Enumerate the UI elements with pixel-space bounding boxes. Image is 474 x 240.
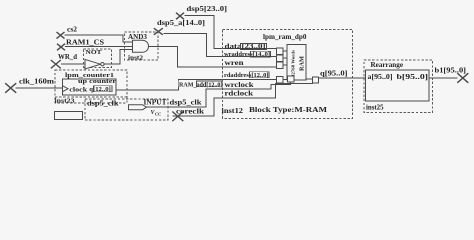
wire AND3 output to RAM wren port — [149, 46, 277, 67]
svg-text:lpm_ram_dp0: lpm_ram_dp0 — [263, 33, 307, 41]
svg-text:clock: clock — [69, 86, 87, 93]
svg-text:RAM1_CS: RAM1_CS — [66, 39, 104, 47]
Rearrange block — [364, 60, 433, 113]
svg-text:WR_d: WR_d — [58, 53, 77, 61]
svg-text:RAM_add[12..0]: RAM_add[12..0] — [179, 81, 223, 88]
wire RAM q to Rearrange a — [318, 77, 365, 79]
svg-text:inst25: inst25 — [366, 104, 384, 112]
wire Rearrange b to output — [429, 77, 458, 79]
RAM port square rdaddress — [277, 76, 284, 83]
svg-text:up counter: up counter — [78, 78, 116, 85]
svg-text:coreclk: coreclk — [176, 108, 204, 116]
svg-text:rdclock: rdclock — [225, 90, 254, 98]
unlabeled rectangle bottom-left — [55, 112, 83, 120]
svg-text:inst23: inst23 — [55, 97, 76, 104]
AND3 gate — [125, 32, 159, 62]
RAM primitive symbol — [287, 45, 306, 81]
port stubs to RAM symbol — [283, 51, 287, 79]
svg-text:Block Type:M-RAM: Block Type:M-RAM — [249, 105, 327, 114]
wire cs2 to AND3 input A — [65, 35, 133, 42]
wire RAM1_CS to AND3 input B — [65, 45, 133, 47]
wire dsp5_a to RAM wraddress port — [164, 33, 277, 56]
svg-text:RAM: RAM — [300, 56, 306, 71]
svg-text:b1[95..0]: b1[95..0] — [435, 67, 467, 75]
NOT gate — [84, 49, 112, 69]
svg-text:clk_160m: clk_160m — [19, 78, 54, 86]
svg-text:dsp5_clk: dsp5_clk — [87, 100, 119, 108]
svg-text:Rearrange: Rearrange — [371, 61, 404, 69]
svg-text:wrclock: wrclock — [225, 81, 254, 89]
lpm_ram_dp0 block — [222, 30, 353, 119]
svg-text:dsp5_a[14..0]: dsp5_a[14..0] — [157, 19, 205, 27]
RAM port square data — [277, 48, 284, 55]
input pin RAM1_CS — [57, 39, 104, 51]
svg-text:cs2: cs2 — [67, 26, 78, 34]
svg-text:inst12: inst12 — [222, 107, 244, 115]
input pin dsp5[23..0] — [176, 5, 227, 19]
svg-text:CC: CC — [155, 112, 162, 117]
svg-text:inst2: inst2 — [128, 55, 143, 62]
wire dsp5_clk to RAM wrclock — [147, 82, 291, 107]
wire NOT output to AND3 input C — [104, 49, 132, 64]
wire WR_d to NOT input — [61, 63, 85, 65]
output pin b1[95..0] — [435, 67, 469, 83]
svg-text:NOT: NOT — [86, 49, 103, 56]
svg-text:q[95..0]: q[95..0] — [320, 70, 348, 78]
RAM port square wren — [277, 62, 284, 69]
input pin WR_d — [51, 53, 77, 69]
svg-text:a[95..0]: a[95..0] — [368, 73, 393, 81]
wire clk_160m to counter clock — [16, 87, 63, 89]
svg-text:32768 Words: 32768 Words — [291, 50, 296, 77]
svg-text:wren: wren — [225, 59, 244, 67]
wire coreclk to RAM rdclock — [173, 83, 313, 116]
input pin cs2 — [57, 26, 78, 39]
RAM q output square — [306, 78, 313, 80]
svg-text:wraddress[14..0]: wraddress[14..0] — [224, 51, 270, 58]
lpm_counter1 block — [55, 70, 128, 105]
input pin clk_160m — [5, 78, 54, 93]
wire dsp5 to RAM data port — [185, 16, 277, 49]
svg-text:b[95..0]: b[95..0] — [397, 73, 429, 81]
input pin symbol dsp5_clk — [85, 99, 168, 121]
svg-text:INPUT: INPUT — [144, 99, 167, 107]
svg-text:dsp5_clk: dsp5_clk — [170, 99, 202, 107]
input pin coreclk — [172, 108, 204, 121]
net label RAM_add[12..0] — [179, 80, 223, 88]
RAM port square wraddress — [277, 55, 284, 62]
RAM clock square wrclock — [288, 76, 295, 82]
svg-text:dsp5[23..0]: dsp5[23..0] — [187, 5, 228, 13]
wire counter q to RAM rdaddress port — [116, 79, 277, 90]
input pin dsp5_a[14..0] — [154, 19, 205, 35]
svg-text:q[12..0]: q[12..0] — [89, 86, 111, 93]
